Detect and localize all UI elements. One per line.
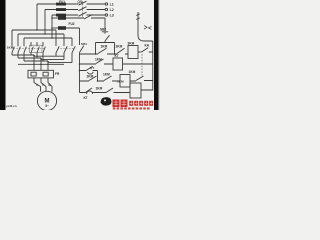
switch QS blade 1 [79,1,87,5]
junction phase3-bus3 [51,37,53,39]
fuse FU1 pole 3 [56,14,66,17]
fuse FU1 pole 2 [56,8,66,11]
wire control tap 2 [52,27,58,29]
arrow mark 2 [149,26,152,29]
terminal L2 [105,8,107,10]
junction r2a [79,63,81,65]
contact FR NC [84,15,92,19]
watermark text dianzixiazaizhan [129,101,153,106]
wire bus 3 [24,38,72,42]
wire motor lead 3 [48,78,52,92]
contactor 2KM frame [30,45,43,52]
contact 1KM aux rung2 [96,59,104,64]
wire rung1 [80,53,129,55]
fuse FU2 pole 2 [58,26,66,30]
border bar left [0,0,6,110]
wire merge a1 [12,54,34,56]
wire L2 phase line [45,9,105,11]
contact 1KM aux rung4 [106,88,113,93]
contact 1KM self-hold branch [96,43,115,55]
coil KT [113,58,123,70]
contact KT delayed [86,66,93,74]
junction r1a [95,53,97,55]
wire FR lead 1 [33,55,35,70]
watermark char bao2 [121,100,128,108]
wire top right drop [138,12,153,41]
wire left rail lower [79,53,81,93]
wire motor lead 1 [34,78,41,92]
svg-text:V: V [42,83,44,87]
contactor 3KM pole2 [64,42,67,59]
wire bus 1 [12,30,56,42]
wire merge long [18,63,64,65]
switch QS blade 3 [79,12,87,16]
terminal L3 [105,14,107,16]
junction m1 [33,55,35,57]
wire FR lead 3 [47,61,49,70]
junction m6 [47,64,49,66]
svg-text:U: U [36,83,38,87]
arrow mark 1 [144,26,147,30]
svg-text:SB1: SB1 [81,42,87,46]
wire bus1 right drop [55,30,57,42]
wire phase2 drop [44,10,46,35]
wire bus3 right drop [71,38,73,42]
wire merge b2 [41,58,64,60]
svg-text:L1: L1 [110,2,114,6]
svg-text:1KM: 1KM [96,86,103,90]
coil 1KM [130,83,141,98]
svg-text:KT: KT [115,54,119,58]
wire control tap 1 [52,17,58,19]
contactor 3KM pole3 [72,42,75,63]
thermal relay FR box [28,70,54,78]
svg-text:L2: L2 [110,8,114,12]
wire merge a2 [18,57,41,59]
contactor 1KM pole2 [18,42,20,58]
svg-text:1KM: 1KM [101,45,108,49]
wire FR lead 2 [40,58,42,70]
junction m5 [40,64,42,66]
svg-text:ycdl.cn: ycdl.cn [6,104,17,108]
wire phase1 drop [36,4,38,30]
thermal relay FR heater 2 [43,72,48,76]
junction tap1 [51,17,53,19]
wire L3 phase line [52,14,105,16]
contactor 1KM pole3 [24,42,26,61]
contactor 2KM pole2 [37,42,39,58]
svg-text:SB2: SB2 [100,27,106,31]
contact KA [142,48,153,52]
junction phase1-bus1 [36,29,38,31]
svg-text:1KM: 1KM [103,72,110,76]
contactor 2KM pole1 [31,42,33,55]
fuse FU2 pole 1 [58,16,66,20]
junction tap2 [51,27,53,29]
wire merge a3 [24,60,48,62]
motor M circle [37,91,56,110]
border bar right [154,0,159,110]
wire rung3 [80,80,153,83]
switch QS linkage [82,1,84,17]
wire merge b3 [48,62,72,64]
svg-text:2KM: 2KM [87,74,94,78]
pushbutton SB1 blade [80,46,84,53]
wire bus 2 [18,34,64,42]
svg-text:3~: 3~ [45,104,49,108]
linkage dashed [141,54,143,76]
contact 1KM aux rung3 [104,76,112,81]
wire left rail [66,28,80,45]
contact KT delayed rung4 [86,88,93,94]
fuse FU1 pole 1 [56,3,66,6]
watermark logo blob [101,97,112,105]
coil 2KM [120,75,130,88]
wire motor lead 2 [41,78,46,91]
wire control rail top [66,18,105,31]
svg-text:2KM: 2KM [116,44,123,48]
svg-text:FU2: FU2 [69,22,75,26]
svg-text:3KM: 3KM [128,42,135,46]
contactor 1KM pole1 [12,42,14,55]
linkage 1KM-2KM dashed [14,48,46,50]
junction m3 [47,61,49,63]
svg-text:FR: FR [55,72,60,76]
svg-text:1KM: 1KM [117,79,124,83]
junction phase2-bus2 [44,33,46,35]
svg-text:L3: L3 [110,13,114,17]
wire rung4 [80,90,153,93]
junction m2 [40,58,42,60]
svg-text:KT: KT [90,66,94,70]
junction r1b [114,53,116,55]
svg-text:1KM: 1KM [95,58,102,62]
wire phase3 drop [51,15,53,38]
junction m4 [33,64,35,66]
svg-text:FU1: FU1 [59,0,65,4]
wire rung2 [80,63,153,65]
watermark char bao1 [113,100,120,108]
contactor 2KM pole3 [43,42,45,61]
watermark url row [113,107,150,109]
wire merge b1 [34,55,64,57]
wire L1 phase line [37,3,105,5]
contact 2KM aux rung3 [89,76,97,81]
svg-text:QS: QS [78,0,83,4]
wire right rail [152,41,154,91]
thermal relay FR heater 1 [31,72,36,76]
wire coil3KM out [138,51,142,53]
contact 1KM self-hold blade [98,48,107,53]
switch QS blade 2 [79,7,87,11]
svg-text:KT: KT [84,96,88,100]
wire KT branch [80,71,98,82]
tick mark 1 [136,14,139,16]
contact 2KM NC [117,48,125,53]
contactor 3KM pole1 [56,42,59,56]
svg-text:1KM: 1KM [129,70,136,74]
terminal L1 [105,3,107,5]
svg-text:1KM: 1KM [7,46,14,50]
junction r3a [97,80,99,82]
svg-text:KA: KA [145,43,150,47]
coil 3KM [128,46,138,59]
tick mark 2 [136,18,139,20]
contact 1KM right rung3 [136,76,144,81]
linkage 3KM dashed [58,48,74,50]
junction ktb [79,70,81,72]
pushbutton SB2 [102,32,110,43]
wire bus2 right drop [63,34,65,42]
